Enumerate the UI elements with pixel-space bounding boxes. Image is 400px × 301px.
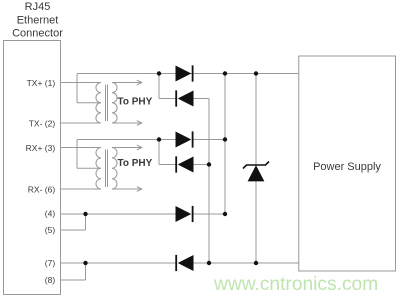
svg-text:(8): (8) [45,275,56,285]
svg-text:To PHY: To PHY [118,158,153,169]
svg-text:(7): (7) [45,258,56,268]
svg-text:www.cntronics.com: www.cntronics.com [213,274,378,295]
svg-text:RX+ (3): RX+ (3) [26,143,56,153]
svg-text:TX+ (1): TX+ (1) [27,78,56,88]
svg-text:RJ45: RJ45 [25,1,51,13]
svg-text:(4): (4) [45,209,56,219]
svg-text:To PHY: To PHY [118,97,153,108]
svg-text:Ethernet: Ethernet [17,15,59,27]
svg-text:Connector: Connector [12,28,63,40]
svg-text:RX- (6): RX- (6) [28,184,56,194]
svg-text:TX- (2): TX- (2) [29,119,56,129]
svg-text:(5): (5) [45,225,56,235]
svg-text:Power Supply: Power Supply [313,161,381,173]
